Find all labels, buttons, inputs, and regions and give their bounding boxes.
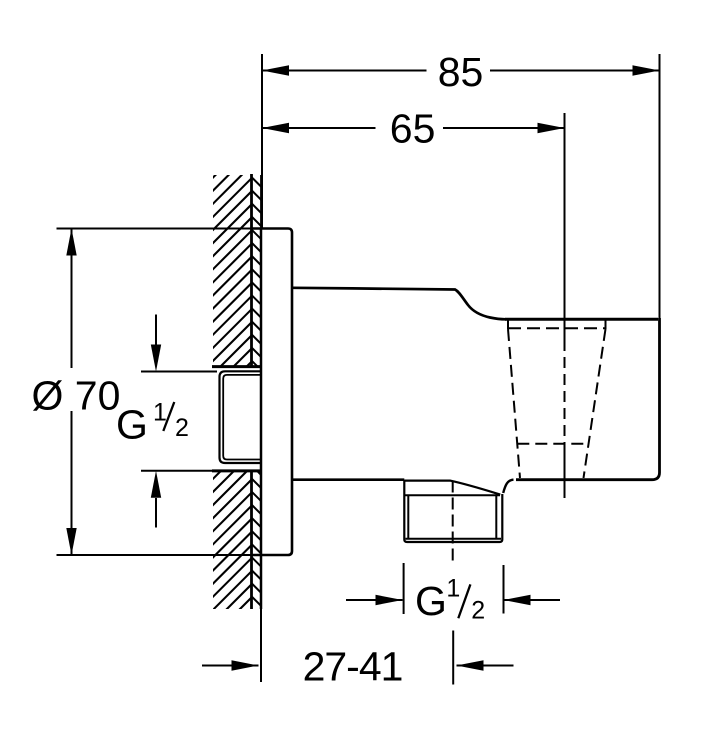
svg-text:1: 1 — [153, 399, 167, 427]
svg-text:G: G — [116, 401, 148, 447]
svg-text:1: 1 — [446, 575, 460, 603]
svg-text:27-41: 27-41 — [303, 644, 403, 690]
svg-text:2: 2 — [471, 596, 485, 624]
svg-text:G: G — [415, 578, 447, 624]
svg-text:65: 65 — [390, 105, 436, 151]
svg-text:Ø 70: Ø 70 — [32, 372, 121, 418]
svg-text:85: 85 — [438, 49, 484, 95]
svg-text:2: 2 — [175, 414, 189, 442]
